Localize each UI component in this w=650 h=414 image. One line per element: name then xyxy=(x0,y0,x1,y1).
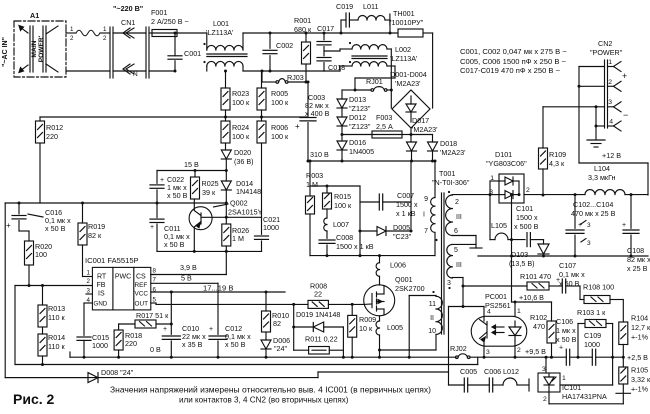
svg-text:RT: RT xyxy=(97,274,107,281)
resistor R001 xyxy=(305,33,307,42)
fuse F003 xyxy=(342,134,372,136)
capacitor C010 xyxy=(170,292,172,334)
svg-text:+: + xyxy=(295,122,300,131)
svg-text:R025: R025 xyxy=(202,179,219,188)
svg-text:C001: C001 xyxy=(184,49,201,58)
svg-text:RJ02: RJ02 xyxy=(450,344,467,353)
wire drain line xyxy=(310,255,435,257)
svg-text:'М2А23': 'М2А23' xyxy=(412,125,438,134)
wire C101 junction down xyxy=(511,195,513,302)
svg-text:1: 1 xyxy=(103,26,107,33)
svg-text:C017-C019 470 пФ х 250 В ~: C017-C019 470 пФ х 250 В ~ xyxy=(460,66,561,75)
svg-text:1 мк х: 1 мк х xyxy=(556,326,576,335)
svg-text:4,3 к: 4,3 к xyxy=(549,159,565,168)
inductor L005 xyxy=(379,316,381,321)
svg-text:"C23": "C23" xyxy=(393,232,412,241)
svg-text:100 к: 100 к xyxy=(232,98,250,107)
svg-text:7: 7 xyxy=(153,277,157,284)
svg-text:2: 2 xyxy=(70,35,74,42)
svg-text:1000: 1000 xyxy=(92,341,108,350)
capacitor C022 xyxy=(156,171,158,184)
wire CN1 through xyxy=(113,32,146,34)
CN2 pin 3 xyxy=(614,102,622,107)
svg-text:"POWER": "POWER" xyxy=(590,48,623,57)
diode D005 xyxy=(360,230,377,232)
wire bus primary ground xyxy=(70,356,456,358)
IC001 pin stubs xyxy=(86,293,92,295)
svg-text:C102...C104: C102...C104 xyxy=(573,200,613,209)
resistor R014 xyxy=(42,327,44,334)
svg-text:х 35 В: х 35 В xyxy=(182,340,203,349)
svg-text:100 к: 100 к xyxy=(271,98,289,107)
svg-text:IC001 FA5515P: IC001 FA5515P xyxy=(85,256,139,265)
svg-text:L001: L001 xyxy=(213,19,229,28)
wire L002 bottom entry xyxy=(324,70,340,72)
svg-text:L007: L007 xyxy=(333,220,349,229)
svg-text:III: III xyxy=(456,214,462,221)
capacitor C002 xyxy=(269,33,271,48)
svg-text:110 к: 110 к xyxy=(48,313,65,322)
wire +10.6V line xyxy=(512,301,552,303)
svg-text:MAIN: MAIN xyxy=(31,40,38,57)
wire gate xyxy=(364,303,372,305)
wire CS line xyxy=(151,274,227,276)
CN2 pin 1 xyxy=(614,62,622,67)
wire mains L to CN1 xyxy=(66,32,76,34)
svg-text:3: 3 xyxy=(542,366,546,373)
capacitor C108 xyxy=(630,195,632,229)
capacitor C109 xyxy=(570,356,592,358)
svg-text:+: + xyxy=(622,222,626,229)
resistor R003 xyxy=(309,186,311,196)
svg-text:R005: R005 xyxy=(271,89,288,98)
svg-text:HA17431PNA: HA17431PNA xyxy=(562,392,607,401)
svg-text:R014: R014 xyxy=(48,333,65,342)
svg-text:+: + xyxy=(559,345,563,352)
svg-text:+: + xyxy=(150,224,154,231)
svg-text:D016: D016 xyxy=(349,138,366,147)
svg-text:5 В: 5 В xyxy=(181,274,192,283)
resistor R012 xyxy=(39,117,41,121)
svg-text:"N-Т0I-306": "N-Т0I-306" xyxy=(432,178,470,187)
wire branch to C019 xyxy=(340,20,342,33)
svg-text:+9,5 В: +9,5 В xyxy=(525,347,546,356)
resistor R020 xyxy=(28,231,30,241)
svg-text:9: 9 xyxy=(424,196,428,203)
svg-text:"10010РУ": "10010РУ" xyxy=(389,18,424,27)
svg-text:C108: C108 xyxy=(627,246,644,255)
svg-text:R101 470: R101 470 xyxy=(520,272,551,281)
svg-text:100: 100 xyxy=(35,250,47,259)
wire IC101 pin2 xyxy=(548,392,550,404)
svg-text:15 В: 15 В xyxy=(184,160,199,169)
svg-text:2 А/250 В ~: 2 А/250 В ~ xyxy=(151,17,189,26)
svg-text:1500 х: 1500 х xyxy=(516,213,538,222)
svg-text:1N4148: 1N4148 xyxy=(236,187,261,196)
svg-text:Q002: Q002 xyxy=(230,199,248,208)
capacitor C017 xyxy=(323,33,325,40)
IC U IC101 HA17431PNA xyxy=(538,373,560,392)
CN2 pin 2 xyxy=(614,81,622,86)
svg-text:110 к: 110 к xyxy=(48,342,65,351)
wire bus2 xyxy=(15,364,478,366)
wire vcc rail y203 xyxy=(5,202,225,204)
svg-text:"Z123": "Z123" xyxy=(349,104,371,113)
svg-text:R108 100: R108 100 xyxy=(583,283,614,292)
svg-text:+10,6 В: +10,6 В xyxy=(519,293,544,302)
fuse F001 xyxy=(152,30,177,37)
svg-text:1: 1 xyxy=(70,26,74,33)
diode D016 xyxy=(341,135,343,142)
svg-text:100 к: 100 к xyxy=(271,132,289,141)
wire CN2 pin2 feed xyxy=(579,85,605,87)
svg-text:470: 470 xyxy=(533,322,545,331)
resistor R102 xyxy=(551,302,553,321)
svg-text:Q001: Q001 xyxy=(395,275,413,284)
ground chassis xyxy=(595,126,597,140)
diode D014 xyxy=(225,171,227,182)
svg-text:III: III xyxy=(456,262,462,269)
zener diode D013 xyxy=(337,99,347,108)
svg-text:100 к: 100 к xyxy=(232,132,250,141)
svg-text:100 к: 100 к xyxy=(334,201,352,210)
svg-text:11: 11 xyxy=(429,301,436,308)
svg-text:D013: D013 xyxy=(349,95,366,104)
svg-text:1: 1 xyxy=(608,59,612,66)
jumper RJ03 xyxy=(261,71,263,82)
diode D101 dual xyxy=(499,174,524,203)
diode D019 xyxy=(293,304,295,327)
zener diode D020 xyxy=(221,150,231,159)
svg-text:D017: D017 xyxy=(412,116,429,125)
svg-text:220: 220 xyxy=(125,339,137,348)
svg-text:R105: R105 xyxy=(631,366,648,375)
capacitor C015 xyxy=(77,336,91,338)
inductor L001 xyxy=(206,33,208,50)
svg-text:CS: CS xyxy=(136,274,146,281)
capacitor C008 xyxy=(326,231,328,238)
IC U IC001 FA5515P xyxy=(92,267,150,310)
wire +9.5V line xyxy=(470,356,566,358)
transformer feedback winding II xyxy=(436,296,442,334)
svg-text:'М2А23': 'М2А23' xyxy=(395,79,421,88)
svg-text:D005: D005 xyxy=(393,223,410,232)
resistor R025 xyxy=(194,171,196,178)
inductor L007 xyxy=(324,218,327,231)
capacitor C106 xyxy=(565,349,567,365)
diode D018 xyxy=(411,134,433,136)
inductor L104 xyxy=(585,190,625,195)
svg-text:REF: REF xyxy=(135,282,148,289)
transformer secondary winding III lower xyxy=(447,244,453,278)
svg-text:+-1%: +-1% xyxy=(631,385,649,394)
svg-text:10 к: 10 к xyxy=(359,324,373,333)
wire pin3 to R101 xyxy=(463,285,527,287)
svg-text:R003: R003 xyxy=(306,171,323,180)
svg-text:R013: R013 xyxy=(48,304,65,313)
svg-text:L005: L005 xyxy=(387,323,403,332)
svg-text:х 50 В: х 50 В xyxy=(164,240,185,249)
svg-text:1000: 1000 xyxy=(584,340,600,349)
svg-text:R019: R019 xyxy=(88,222,105,231)
svg-text:R012: R012 xyxy=(46,123,63,132)
wire IC101 pin1 xyxy=(560,384,613,386)
svg-text:"Z123": "Z123" xyxy=(349,122,371,131)
capacitor C021 xyxy=(261,217,263,234)
svg-text:L104: L104 xyxy=(594,164,610,173)
diode D006 xyxy=(265,332,267,340)
svg-text:220: 220 xyxy=(46,132,58,141)
svg-text:2: 2 xyxy=(455,199,459,206)
svg-text:CN1: CN1 xyxy=(121,18,135,27)
wire D101 anodes xyxy=(490,180,499,182)
svg-text:D019 1N4148: D019 1N4148 xyxy=(296,310,340,319)
inductor L012 xyxy=(493,384,503,386)
svg-text:C005: C005 xyxy=(460,367,477,376)
wire after L001 top xyxy=(243,32,341,34)
capacitor C005 xyxy=(449,384,465,386)
inductor L105 xyxy=(489,195,491,240)
resistor R018 xyxy=(118,324,120,330)
jumper RJ02 xyxy=(456,356,459,359)
capacitor C007 xyxy=(359,186,361,256)
svg-text:3: 3 xyxy=(447,280,451,287)
inductor L006 xyxy=(379,256,381,263)
svg-text:R103 1 к: R103 1 к xyxy=(577,308,606,317)
wire rail2 xyxy=(157,250,262,252)
wire REF line xyxy=(151,282,218,284)
jumper RJ01 xyxy=(371,89,374,92)
thermistor TH001 xyxy=(341,32,398,34)
capacitor C019 xyxy=(341,19,346,21)
svg-text:1500 х 1 кВ: 1500 х 1 кВ xyxy=(336,242,374,251)
svg-text:1: 1 xyxy=(562,375,566,382)
capacitor C001 xyxy=(174,33,176,56)
inductor L011 xyxy=(349,19,358,21)
svg-text:4: 4 xyxy=(609,119,613,126)
CN1 pin arrow N xyxy=(126,64,134,74)
svg-text:+: + xyxy=(209,326,213,333)
capacitor C016 xyxy=(18,203,20,214)
svg-text:R104: R104 xyxy=(631,314,648,323)
svg-text:1N4005: 1N4005 xyxy=(349,147,374,156)
wire opto pin3 xyxy=(483,341,485,357)
capacitor C102-C104 xyxy=(574,195,576,229)
svg-text:3,3 мкГн: 3,3 мкГн xyxy=(588,173,616,182)
resistor R109 xyxy=(542,107,544,148)
svg-text:A1: A1 xyxy=(30,11,39,20)
capacitor C012 xyxy=(217,283,219,334)
svg-text:470 мк х 25 В: 470 мк х 25 В xyxy=(571,209,616,218)
resistor R013 xyxy=(42,286,44,306)
svg-text:C107: C107 xyxy=(559,261,576,270)
resistor R026 xyxy=(225,203,227,224)
svg-text:310 В: 310 В xyxy=(310,150,329,159)
capacitor C101 xyxy=(526,233,528,247)
svg-text:"YG803C06": "YG803C06" xyxy=(486,159,527,168)
svg-text:2: 2 xyxy=(517,347,521,354)
svg-text:0 В: 0 В xyxy=(150,345,161,354)
wire opto pin2 xyxy=(514,341,516,357)
svg-text:C005, C006 1500 пФ х 250 В ~: C005, C006 1500 пФ х 250 В ~ xyxy=(460,57,566,66)
svg-text:R024: R024 xyxy=(232,123,249,132)
svg-text:FB: FB xyxy=(97,282,106,289)
svg-text:82: 82 xyxy=(273,319,281,328)
resistor R103 xyxy=(577,324,579,358)
svg-text:R023: R023 xyxy=(232,89,249,98)
svg-text:"~AC IN": "~AC IN" xyxy=(2,37,9,67)
svg-text:C101: C101 xyxy=(516,204,533,213)
wire center tap xyxy=(452,235,476,237)
svg-text:7: 7 xyxy=(424,228,428,235)
svg-text:D018: D018 xyxy=(440,139,457,148)
svg-text:D012: D012 xyxy=(349,113,366,122)
svg-text:D008 "24": D008 "24" xyxy=(101,368,134,377)
svg-text:0,1 мк х: 0,1 мк х xyxy=(559,270,585,279)
wire CN2 pin3 feed xyxy=(596,106,605,108)
svg-text:2: 2 xyxy=(608,79,612,86)
svg-text:1 М: 1 М xyxy=(232,234,244,243)
svg-text:'М2А23': 'М2А23' xyxy=(440,148,466,157)
connector CN1 xyxy=(109,27,111,78)
wire gate after R008 xyxy=(328,303,364,305)
svg-text:+-1%: +-1% xyxy=(631,333,649,342)
connector A1 mains plug box xyxy=(14,21,66,77)
svg-text:IS: IS xyxy=(98,291,105,298)
svg-text:1: 1 xyxy=(87,270,91,277)
wire Q002 collector to rail2 xyxy=(193,227,195,251)
wire 15V line xyxy=(157,170,226,172)
svg-text:3: 3 xyxy=(608,99,612,106)
svg-text:I: I xyxy=(423,212,425,219)
svg-text:6: 6 xyxy=(454,228,458,235)
svg-text:8: 8 xyxy=(153,268,157,275)
capacitor C006 xyxy=(468,384,490,386)
svg-text:х 1 кВ: х 1 кВ xyxy=(396,209,416,218)
svg-text:C017: C017 xyxy=(317,24,334,33)
diode D008 xyxy=(88,373,98,383)
wire pin2 to D101 xyxy=(452,194,490,196)
svg-text:C007: C007 xyxy=(397,191,414,200)
svg-text:N: N xyxy=(133,71,138,78)
wire F001 to L001 xyxy=(177,32,207,34)
svg-text:2: 2 xyxy=(526,187,530,194)
connector CN2 xyxy=(604,60,606,128)
svg-text:C106: C106 xyxy=(556,317,573,326)
svg-text:−: − xyxy=(623,110,628,120)
svg-text:L002: L002 xyxy=(395,45,411,54)
wire 310V rail xyxy=(308,160,435,162)
svg-text:х 50 В: х 50 В xyxy=(225,340,246,349)
resistor R024 xyxy=(221,121,230,143)
svg-text:2: 2 xyxy=(103,35,107,42)
wire L002 top to bridge xyxy=(387,48,391,50)
svg-text:L011: L011 xyxy=(363,2,378,11)
svg-text:RJ01: RJ01 xyxy=(366,77,383,86)
wire pin3 out xyxy=(452,277,463,279)
svg-text:F003: F003 xyxy=(376,113,392,122)
resistor R019 xyxy=(82,203,84,223)
inductor L002 xyxy=(352,45,387,49)
transistor Q001 2SK2700 xyxy=(364,285,395,316)
wire L002 bottom to RJ01 xyxy=(387,65,395,67)
svg-text:2: 2 xyxy=(543,396,547,403)
wire snubber top xyxy=(309,161,311,186)
resistor R010 xyxy=(265,292,267,311)
wire bus D008 line xyxy=(5,377,318,379)
svg-text:R006: R006 xyxy=(271,123,288,132)
transformer primary winding I xyxy=(434,161,436,198)
svg-text:PC001: PC001 xyxy=(485,292,507,301)
svg-text:R015: R015 xyxy=(334,192,351,201)
svg-text:1: 1 xyxy=(517,308,521,315)
svg-text:+: + xyxy=(6,221,11,230)
svg-text:VCC: VCC xyxy=(135,291,149,298)
svg-text:22: 22 xyxy=(314,290,322,299)
capacitor C018 xyxy=(323,47,325,56)
wire D101 cathode rail xyxy=(524,194,585,196)
svg-text:х 50 В: х 50 В xyxy=(556,335,577,344)
svg-text:82 к: 82 к xyxy=(88,231,102,240)
wire bus3 winding return xyxy=(318,371,449,373)
svg-text:TH001: TH001 xyxy=(393,9,415,18)
wire winding II pin10 xyxy=(435,334,437,350)
resistor R011 xyxy=(293,327,295,350)
capacitor C107 xyxy=(549,285,562,287)
svg-text:F001: F001 xyxy=(151,8,167,17)
svg-text:2SK2700: 2SK2700 xyxy=(395,284,425,293)
svg-text:D020: D020 xyxy=(234,148,251,157)
svg-text:680 к: 680 к xyxy=(294,25,312,34)
svg-text:2: 2 xyxy=(87,278,91,285)
svg-text:10: 10 xyxy=(428,328,436,335)
wire Q002 base xyxy=(201,216,262,218)
resistor R017 xyxy=(119,323,135,325)
zener diode D103 xyxy=(543,240,545,244)
svg-text:R011 0,22: R011 0,22 xyxy=(305,335,338,344)
svg-text:3: 3 xyxy=(587,222,591,229)
svg-text:Рис. 2: Рис. 2 xyxy=(13,391,55,407)
wire VCC line xyxy=(151,291,285,293)
transformer secondary winding III upper xyxy=(446,195,453,236)
bridge rectifier D001-D004 xyxy=(392,90,430,128)
wire GND pin4 xyxy=(88,302,92,304)
svg-text:II: II xyxy=(430,315,434,322)
resistor R005 xyxy=(261,71,263,88)
svg-text:D001-D004: D001-D004 xyxy=(390,70,427,79)
svg-text:+2,5 В: +2,5 В xyxy=(627,353,648,362)
wire OUT to R008 xyxy=(151,302,156,304)
svg-text:R017 51 к: R017 51 к xyxy=(136,311,169,320)
svg-text:х 500 В: х 500 В xyxy=(514,222,539,231)
svg-text:C019: C019 xyxy=(336,2,353,11)
svg-text:POWER': POWER' xyxy=(38,35,45,62)
svg-text:R102: R102 xyxy=(530,313,547,322)
svg-text:D103: D103 xyxy=(511,250,528,259)
zener diode D012 xyxy=(337,117,347,126)
svg-text:+: + xyxy=(622,71,627,81)
svg-text:3,32 к: 3,32 к xyxy=(631,375,650,384)
wire snubber right vertical xyxy=(410,161,412,231)
svg-text:GND: GND xyxy=(94,301,108,308)
svg-text:+: + xyxy=(163,326,167,333)
svg-text:2SA1015Y: 2SA1015Y xyxy=(228,208,263,217)
svg-text:+: + xyxy=(160,177,164,184)
svg-text:или контактов 3, 4 CN2 (во вто: или контактов 3, 4 CN2 (во вторичных цеп… xyxy=(179,396,349,405)
wire opto pin4 path xyxy=(449,306,485,308)
svg-text:(13,5 В): (13,5 В) xyxy=(509,259,535,268)
wire CN2 pin1 feed xyxy=(579,66,605,68)
